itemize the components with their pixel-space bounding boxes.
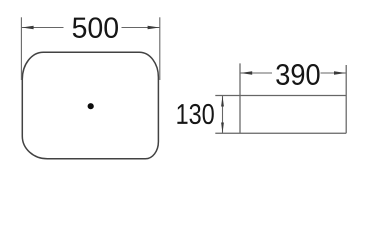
dimension line 500 left segment xyxy=(21,27,63,29)
arrow right (500) xyxy=(148,26,160,30)
label 390 xyxy=(276,64,319,85)
dimension line 390 left segment xyxy=(240,72,272,74)
label 500 xyxy=(73,17,118,38)
extension line right (500 dim) xyxy=(159,17,161,80)
arrow down (130) xyxy=(221,123,224,134)
dimension line 500 right segment xyxy=(122,27,160,29)
dimension line 390 right segment xyxy=(321,72,347,74)
arrow up (130) xyxy=(221,96,224,107)
basin top view outline xyxy=(22,52,158,159)
drain center dot xyxy=(88,103,94,109)
dimension line 130 vertical xyxy=(222,96,224,134)
arrow left (500) xyxy=(22,26,34,30)
arrow left (390) xyxy=(240,71,252,75)
extension line left (500 dim) xyxy=(20,17,22,80)
basin side view outline xyxy=(215,63,346,133)
label 130 xyxy=(177,104,213,124)
arrow right (390) xyxy=(334,71,346,75)
